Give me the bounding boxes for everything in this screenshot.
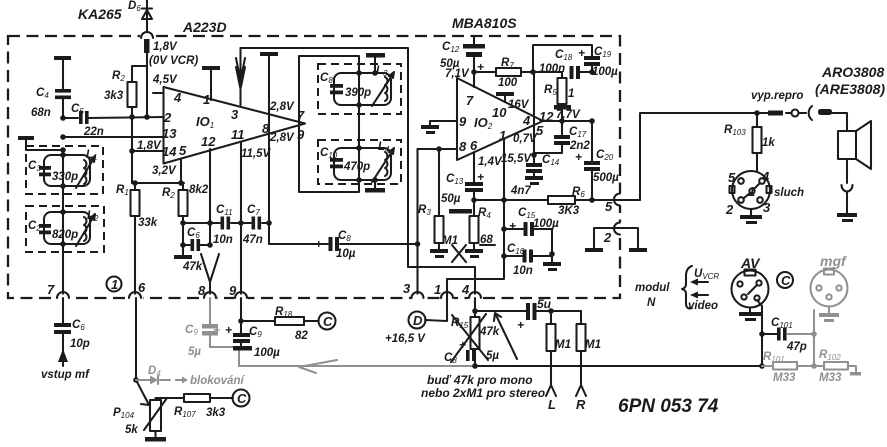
svg-text:9: 9 [229,283,237,298]
svg-text:5: 5 [605,199,613,214]
svg-text:M1: M1 [555,339,571,351]
pin 2 shield grounds [594,228,638,248]
svg-text:C: C [781,273,791,288]
svg-text:7: 7 [47,282,55,297]
wire C13 node to R6 [474,199,548,201]
pin4 stub [153,92,162,94]
svg-text:7,7V: 7,7V [556,109,581,121]
svg-text:1k: 1k [762,137,775,149]
note arrow to pin4 node [494,313,517,359]
pin5 stub [180,159,182,183]
svg-text:7: 7 [466,93,474,108]
svg-text:5: 5 [179,143,187,158]
resistor R1 [132,183,184,298]
svg-text:100: 100 [498,77,518,89]
black wire to output connectors [475,365,762,367]
svg-text:buď 47k pro mono: buď 47k pro mono [427,373,533,387]
svg-text:10n: 10n [213,234,233,246]
capacitor C7 [252,217,256,230]
svg-text:100µ: 100µ [592,66,618,78]
svg-text:R102: R102 [819,349,841,362]
svg-text:+: + [578,46,585,60]
wire pin5 out to speaker line [640,113,847,200]
svg-text:1: 1 [748,184,755,199]
pin3 arrowed feedback wire [236,48,245,105]
svg-text:500µ: 500µ [593,172,619,184]
svg-text:C101: C101 [771,317,793,330]
op-amp IO1 triangle [164,87,306,164]
svg-text:50µ: 50µ [441,193,461,205]
svg-text:1: 1 [111,277,118,292]
svg-text:4: 4 [173,90,182,105]
svg-text:sluch: sluch [774,187,804,199]
svg-text:vyp.repro: vyp.repro [751,90,803,102]
svg-text:47p: 47p [786,341,807,353]
pin5 wire down through C14 [533,72,535,163]
svg-text:D: D [413,313,423,328]
svg-text:68n: 68n [31,107,51,119]
svg-text:4: 4 [461,282,470,297]
svg-text:3K3: 3K3 [558,205,580,217]
pin12 wire down [209,149,211,245]
svg-text:4: 4 [761,169,770,184]
svg-text:9: 9 [459,114,467,129]
svg-text:10: 10 [492,105,507,120]
op-amp IO2 triangle [457,78,543,160]
svg-text:14: 14 [162,144,177,159]
svg-text:M33: M33 [819,372,842,384]
svg-text:blokování: blokování [190,375,245,387]
svg-text:mgf: mgf [820,253,847,269]
svg-text:+16,5 V: +16,5 V [385,333,426,345]
svg-text:2: 2 [163,110,172,125]
pin14 wire [132,150,164,152]
svg-text:C16: C16 [507,243,525,256]
svg-text:33k: 33k [138,217,158,229]
feedback inner loop rect [299,56,359,192]
tank C10/L4 dashed box [318,140,401,184]
svg-text:6: 6 [470,138,478,153]
svg-text:5: 5 [728,170,736,185]
svg-text:R5: R5 [544,84,557,97]
svg-text:1: 1 [499,128,506,143]
svg-text:(0V VCR): (0V VCR) [149,55,198,67]
svg-text:47n: 47n [242,234,263,246]
svg-text:C18: C18 [555,49,573,62]
vstup mf input arrow [62,352,64,366]
svg-text:D6: D6 [128,0,141,13]
pin11 wire to pin9 bump [240,143,242,298]
svg-text:8: 8 [459,139,467,154]
svg-text:C11: C11 [216,204,233,217]
tank C8/L3 dashed box [318,64,401,114]
svg-text:16V: 16V [508,99,530,111]
main dashed module box [8,36,620,298]
svg-text:video: video [688,300,718,312]
svg-text:390p: 390p [345,87,371,99]
svg-text:11: 11 [231,127,245,142]
svg-text:+: + [517,318,524,332]
bottom edge pin bumps [56,193,624,301]
svg-text:C6: C6 [187,227,200,240]
svg-text:8: 8 [198,283,206,298]
svg-text:R103: R103 [724,124,746,137]
svg-text:330p: 330p [52,171,78,183]
tank C8 can [334,73,391,105]
capacitor C4 [54,56,71,60]
pin8 chassis bar [260,52,278,56]
svg-text:12: 12 [201,134,216,149]
svg-text:1: 1 [203,92,210,107]
svg-text:50µ: 50µ [440,58,460,70]
svg-text:820p: 820p [52,229,78,241]
svg-text:A223D: A223D [182,19,227,35]
svg-text:IO1: IO1 [196,114,214,130]
svg-text:3k3: 3k3 [104,90,124,102]
tank C10 can [334,148,391,180]
svg-text:6: 6 [138,280,146,295]
AV ground [749,308,751,313]
svg-text:P104: P104 [113,407,135,420]
diode D6 [142,0,152,36]
svg-text:C14: C14 [542,154,560,167]
svg-text:C8: C8 [320,72,333,85]
svg-text:2: 2 [603,230,612,245]
tank C2 can [44,212,90,244]
circled D +16,5V [409,312,426,329]
circled C at AV [777,272,793,288]
svg-text:vstup mf: vstup mf [41,369,90,381]
svg-text:8k2: 8k2 [189,184,209,196]
pin9 ground [430,121,457,125]
tank C3/L1 dashed box [26,146,103,194]
svg-text:nebo 2xM1 pro stereo: nebo 2xM1 pro stereo [421,386,545,400]
pin1 wire down through C15/C16 [447,139,504,298]
capacitor 470p plates [330,158,343,162]
svg-text:11,5V: 11,5V [241,148,272,160]
svg-text:+: + [509,219,516,233]
svg-text:47k: 47k [182,261,203,273]
svg-text:+: + [477,170,484,184]
svg-text:2,8V: 2,8V [269,132,295,144]
tank C2/L2 dashed box [26,206,104,252]
svg-text:470p: 470p [343,161,370,173]
svg-text:1: 1 [568,88,574,100]
svg-text:C8: C8 [444,352,457,365]
svg-text:N: N [647,297,656,309]
pin1 chassis bar [202,66,220,70]
svg-text:C6: C6 [72,319,85,332]
svg-text:3,2V: 3,2V [152,165,177,177]
svg-text:R4: R4 [478,207,491,220]
tank C3 can [44,155,90,186]
svg-text:1: 1 [434,282,441,297]
svg-text:C9: C9 [185,324,198,337]
svg-text:(ARE3808): (ARE3808) [815,81,885,97]
svg-text:C17: C17 [569,126,587,139]
svg-text:1,8V: 1,8V [137,140,162,152]
svg-text:6PN 053 74: 6PN 053 74 [618,396,719,417]
svg-text:100µ: 100µ [254,347,280,359]
pin8 wire [418,148,458,150]
pin13 wire [63,136,164,138]
big arrow onto pin 8 [201,254,219,298]
svg-text:3: 3 [231,107,239,122]
svg-text:5: 5 [536,123,544,138]
svg-text:R1: R1 [116,184,129,197]
svg-text:4: 4 [522,113,531,128]
svg-text:L: L [548,397,556,412]
speaker [838,131,856,159]
circled C at R18 [319,313,336,330]
wire and capacitor C11 [183,222,251,224]
svg-text:R3: R3 [418,204,431,217]
apex wire IO2 pin12 [543,120,592,122]
svg-text:R2: R2 [162,187,175,200]
svg-text:10p: 10p [70,338,90,350]
svg-text:M33: M33 [773,372,796,384]
ground below tank L4 [374,180,376,188]
svg-text:L3: L3 [376,65,388,78]
svg-text:3k3: 3k3 [206,407,226,419]
svg-text:3: 3 [763,200,771,215]
wire D6 down to pin2 node [146,53,148,117]
wire AV down to C101 node [757,300,762,366]
svg-text:C8: C8 [338,230,351,243]
capacitor 820p plates [39,224,51,228]
circled 1 [107,277,122,292]
resistor R2b 8k2 [182,183,184,245]
svg-text:4n7: 4n7 [510,185,531,197]
svg-text:1,4V: 1,4V [478,156,503,168]
svg-text:+: + [575,150,582,164]
pin6 wire down to pot [135,298,137,380]
svg-text:13: 13 [162,126,177,141]
svg-text:C4: C4 [36,87,49,100]
wire IO2 pin8 down to pin3 bump [416,149,418,298]
svg-text:M1: M1 [585,339,601,351]
svg-text:1,8V: 1,8V [153,41,178,53]
capacitor 390p plates [330,84,343,88]
svg-text:KA265: KA265 [78,6,122,22]
svg-text:3: 3 [403,281,411,296]
svg-text:82: 82 [295,330,308,342]
capacitor 330p plates [39,166,51,170]
svg-text:R: R [576,397,586,412]
svg-text:C20: C20 [596,149,614,162]
svg-text:2: 2 [725,202,734,217]
feedback outer wire box [241,48,476,298]
svg-text:+: + [225,323,232,337]
svg-text:C9: C9 [249,326,262,339]
svg-text:C: C [323,314,333,329]
svg-text:C7: C7 [247,204,260,217]
gray signal wire with arrow [239,365,475,367]
svg-text:MBA810S: MBA810S [452,15,517,31]
svg-text:C: C [237,391,247,406]
svg-text:ARO3808: ARO3808 [821,64,884,80]
circled C at R107 [233,390,250,407]
svg-text:2,8V: 2,8V [269,101,295,113]
feedthrough cap bar on D6 wire [144,39,150,53]
svg-text:47k: 47k [479,326,500,338]
svg-text:R2: R2 [112,70,125,83]
capacitor C5 + pin2 wire [63,117,164,118]
svg-text:5k: 5k [125,424,138,436]
ground top-left [18,136,34,140]
svg-text:5µ: 5µ [486,350,499,362]
svg-text:modul: modul [635,282,670,294]
svg-text:C12: C12 [442,41,460,54]
svg-text:C13: C13 [446,173,464,186]
svg-text:D4: D4 [148,365,161,378]
svg-text:IO2: IO2 [474,115,493,131]
svg-text:R107: R107 [174,406,196,419]
svg-text:10n: 10n [513,265,533,277]
svg-text:+: + [459,338,466,352]
resistor R2 [132,66,147,183]
chassis bar above tank L3 [366,53,385,58]
svg-text:5µ: 5µ [188,346,201,358]
svg-text:4,5V: 4,5V [152,74,178,86]
pin10 chassis bar [496,92,514,96]
bump on dashed edge at D6 [140,33,154,39]
